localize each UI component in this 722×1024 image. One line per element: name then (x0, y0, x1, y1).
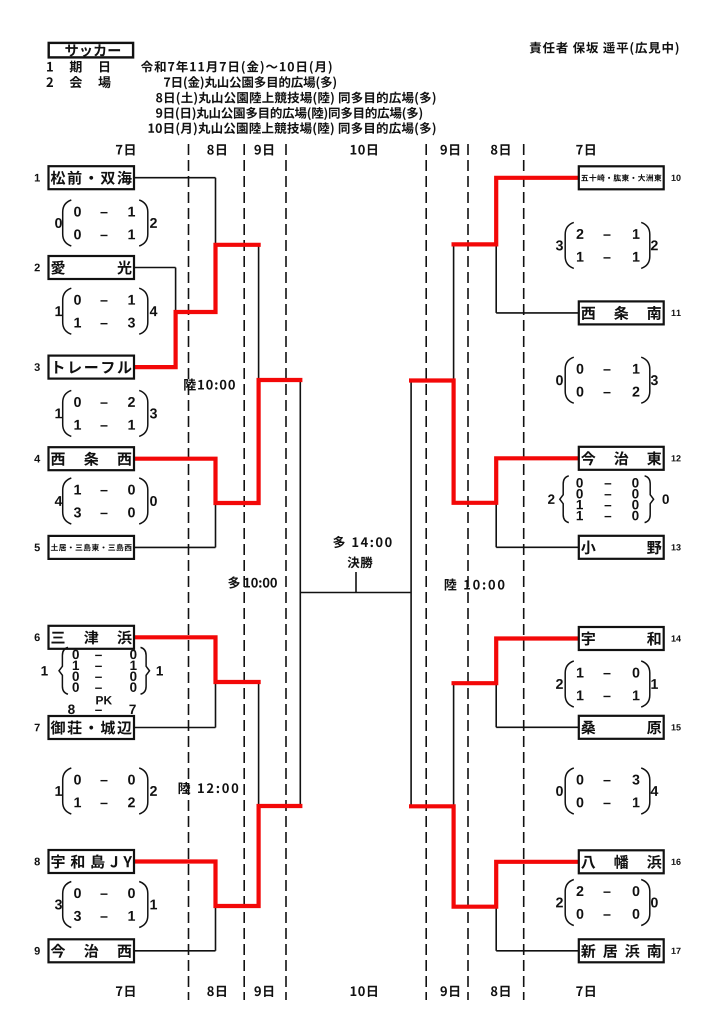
score match 4v5 (63, 478, 72, 524)
wire right semifinal vertical (410, 381, 412, 807)
label kessho final (348, 556, 360, 568)
header responsible person (530, 42, 541, 54)
day label bottom 9日 (254, 986, 260, 996)
team box 15 桑原 (579, 716, 664, 739)
day label top 9日 (440, 145, 446, 155)
header venue line 7th (164, 78, 170, 87)
red winner path team3 trefull through rounds (134, 245, 259, 367)
team seed number 12 (672, 455, 676, 461)
team box 11 西条南 (579, 301, 664, 324)
red winner path team10 ikazaki (454, 178, 579, 245)
title text soccer (65, 44, 77, 56)
header venue line 8th (156, 93, 162, 103)
day label bottom 8日 (207, 986, 213, 996)
day label bottom 7日 (116, 986, 122, 996)
red winner path team12 imabari-higashi (411, 381, 579, 503)
team seed number 17 (672, 948, 676, 954)
title box soccer (49, 43, 133, 58)
wire team1 to match connector (134, 177, 216, 179)
day label top 7日 (116, 145, 122, 155)
wire match 4v5 lower half (215, 503, 217, 547)
wire team13 to match 12v13 (496, 546, 579, 548)
team box 16 八幡浜 (579, 850, 664, 873)
score right quarterfinal top (565, 357, 574, 403)
wire team2 to match 2v3 (134, 267, 176, 269)
team box 9 今治西 (49, 939, 135, 962)
team box 2 愛光 (49, 256, 135, 279)
wire team11 to match 10v11 (496, 312, 579, 314)
score match 8v9 (63, 882, 72, 928)
score right quarterfinal bottom (565, 768, 574, 814)
day label bottom 9日 (440, 986, 446, 996)
red winner path team8 uwajimaJY (134, 806, 300, 906)
team box 13 小野 (579, 536, 664, 559)
dashed day separator line 6 (523, 144, 525, 1000)
score match 14v15 (565, 661, 574, 707)
dashed day separator line 5 (467, 144, 469, 1000)
wire right quarterfinal top upper half (453, 244, 455, 380)
red winner path team4 seijo-nishi (134, 380, 300, 503)
wire team15 to match 14v15 (496, 726, 579, 728)
team seed number 10 (672, 175, 676, 181)
wire match(1 vs w23) upper half (215, 178, 217, 245)
dashed day separator line 4 (425, 144, 427, 1000)
wire champion tick (355, 572, 357, 593)
team seed number 16 (672, 859, 676, 865)
team seed number 9 (35, 947, 40, 955)
red winner path team6 mitsuhama (134, 637, 259, 682)
team box 3 トレーフル (49, 356, 135, 379)
score match 12v13 (560, 476, 569, 523)
wire left quarterfinal top upper half (258, 245, 260, 380)
team box 12 今治東 (579, 447, 664, 470)
label ta 10:00 left-center (228, 576, 240, 588)
day label bottom 7日 (576, 986, 582, 996)
team seed number 14 (672, 635, 676, 641)
team box 6 三津浜 (49, 626, 135, 649)
wire left semifinal vertical (299, 380, 301, 806)
team box 5 土居・三島東・三島西 (49, 536, 135, 559)
team seed number 3 (34, 363, 39, 371)
day label bottom 8日 (491, 986, 497, 996)
team box 4 西条西 (49, 447, 135, 470)
day label top 9日 (254, 145, 260, 155)
team box 14 宇和 (579, 627, 664, 650)
wire left quarterfinal bottom upper half (258, 682, 260, 806)
header venue line 9th (156, 108, 162, 118)
day label top 7日 (576, 145, 582, 155)
label riku 10:00 right (445, 578, 457, 590)
wire team7 to match 6v7 (134, 727, 216, 729)
team seed number 2 (35, 264, 40, 272)
day label top 10日 (351, 145, 357, 155)
team seed number 11 (672, 310, 676, 316)
wire match 14v15 lower half (495, 683, 497, 727)
red winner path team14 uwa (454, 639, 579, 684)
wire match 2v3 upper half (175, 268, 177, 313)
day label bottom 10日 (351, 986, 357, 996)
team seed number 8 (34, 858, 39, 866)
score left quarterfinal top (63, 390, 72, 436)
wire match 16v17 lower half (495, 907, 497, 951)
label ta 14:00 final time (333, 536, 345, 548)
wire final horizontal (300, 592, 411, 594)
wire team9 to match 8v9 (134, 950, 216, 952)
dashed day separator line 2 (243, 144, 245, 1000)
wire team5 to match 4v5 (134, 546, 216, 548)
score match 1 vs w(2v3) (63, 200, 72, 246)
score left quarterfinal bottom (63, 768, 72, 814)
header item1 label (47, 62, 53, 72)
wire match 6v7 lower half (215, 682, 217, 728)
team seed number 7 (35, 724, 40, 732)
score match 16v17 (565, 880, 574, 926)
dashed day separator line 3 (285, 144, 287, 1000)
team seed number 5 (34, 544, 39, 552)
team seed number 4 (34, 455, 40, 463)
wire team17 to match 16v17 (496, 950, 579, 952)
wire match 10v11 lower half (495, 244, 497, 313)
wire match 12v13 lower half (495, 503, 497, 548)
team box 8 宇和島JY (49, 850, 135, 873)
team box 7 御荘・城辺 (49, 716, 135, 739)
red winner path team16 yawatahama (411, 806, 579, 906)
team seed number 6 (35, 633, 40, 641)
label riku 12:00 left (179, 782, 191, 794)
day label top 8日 (207, 145, 213, 155)
team box 1 松前・双海 (49, 166, 135, 189)
header item2 label (46, 77, 53, 87)
wire right quarterfinal bottom upper half (453, 683, 455, 806)
score match 10v11 (565, 222, 574, 268)
wire match 8v9 lower half (215, 906, 217, 951)
score match 2v3 (63, 288, 72, 334)
score match 6v7 with PK (59, 647, 68, 694)
team seed number 15 (672, 724, 676, 730)
team box 10 五十崎・肱東・大洲東 (579, 166, 664, 189)
header item1 date text (141, 61, 153, 73)
header venue line 10th (149, 124, 155, 133)
team seed number 13 (672, 544, 676, 550)
day label top 8日 (491, 145, 497, 155)
dashed day separator line 1 (188, 144, 190, 1000)
team seed number 1 (35, 174, 40, 182)
label riku 10:00 left (184, 378, 196, 390)
team box 17 新居浜南 (579, 939, 664, 962)
